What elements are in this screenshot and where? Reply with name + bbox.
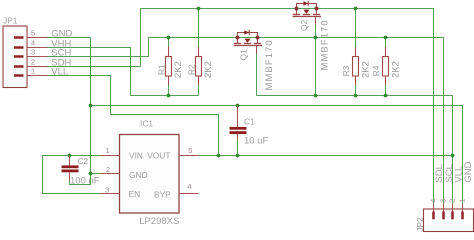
svg-text:4: 4	[31, 39, 35, 48]
svg-text:VIN: VIN	[129, 150, 143, 160]
svg-text:10 uF: 10 uF	[244, 135, 268, 146]
svg-text:GND: GND	[463, 161, 474, 182]
svg-text:IC1: IC1	[140, 119, 153, 129]
wire R2 bottom stub	[198, 85, 200, 96]
svg-text:LP298XS: LP298XS	[139, 216, 179, 227]
wire VLL from JP1 pin1	[48, 76, 219, 156]
svg-text:2: 2	[447, 199, 456, 203]
svg-text:2: 2	[31, 58, 35, 67]
capacitor C1	[230, 106, 269, 147]
svg-text:C1: C1	[244, 116, 255, 126]
svg-text:1: 1	[457, 199, 466, 203]
junction GND rail left	[89, 104, 93, 108]
svg-text:2K2: 2K2	[203, 61, 214, 78]
junction R4 top	[384, 36, 388, 40]
wire VIN-EN loop	[43, 156, 101, 194]
svg-text:3: 3	[31, 48, 35, 57]
svg-text:BYP: BYP	[154, 189, 171, 199]
connector JP2	[415, 209, 474, 232]
IC1 pin 1 VIN	[101, 146, 120, 156]
IC1 pin 4 BYP	[179, 182, 199, 194]
IC1 pin 5 VOUT	[179, 146, 199, 156]
wire VLL low-side rail	[257, 96, 453, 204]
junction GND IC1 pin2	[89, 172, 93, 176]
svg-text:4: 4	[428, 199, 437, 203]
svg-text:4: 4	[187, 182, 191, 191]
JP1 pin 3	[14, 48, 48, 58]
JP2 pin 3	[438, 199, 447, 220]
wire C2 bottom loop	[70, 174, 91, 185]
JP1 pin 2	[14, 58, 48, 68]
resistor R2	[187, 47, 214, 85]
JP1 pin 1	[14, 67, 48, 77]
svg-text:MMBF170: MMBF170	[264, 39, 275, 90]
transistor Q2	[293, 1, 331, 71]
wire SCH from JP1 pin3	[48, 38, 444, 204]
resistor R1	[157, 47, 184, 85]
wire R3 top stub	[355, 9, 357, 49]
resistor R3	[341, 47, 372, 85]
svg-text:2: 2	[106, 165, 110, 174]
wire R1 bottom stub	[168, 85, 170, 96]
JP1 pin 5	[14, 29, 48, 39]
svg-text:JP1: JP1	[3, 15, 18, 25]
svg-text:JP2: JP2	[415, 217, 425, 232]
svg-text:MMBF170: MMBF170	[320, 19, 331, 70]
svg-text:1: 1	[106, 146, 110, 155]
junction R1 bottom	[167, 94, 171, 98]
junction C1 top	[236, 104, 240, 108]
junction C2 top	[68, 154, 72, 158]
JP1 pin 4	[14, 39, 48, 49]
svg-text:1: 1	[31, 67, 35, 76]
wire IC1 pin2 GND stub	[91, 173, 101, 175]
svg-text:3: 3	[438, 199, 447, 203]
junction Q2 gate x SCH	[314, 36, 318, 40]
wire SDH from JP1 pin2	[48, 9, 434, 204]
wire R1 top stub	[168, 38, 170, 49]
svg-text:VOUT: VOUT	[147, 150, 170, 160]
junction C1 bottom	[236, 154, 240, 158]
svg-text:2K2: 2K2	[173, 61, 184, 78]
svg-text:EN: EN	[129, 189, 141, 199]
transistor Q1	[234, 30, 275, 91]
regulator IC1 LP298XS	[120, 119, 180, 228]
JP2 pin 2	[447, 199, 456, 220]
wire R2 top stub	[198, 9, 200, 49]
junction R3 top	[354, 7, 358, 11]
svg-text:Q1: Q1	[239, 49, 249, 61]
wire Q1 gate down	[256, 54, 258, 96]
wire R4 top stub	[385, 38, 387, 49]
wire GND from JP1 pin5	[48, 38, 91, 174]
wire Q2 gate down	[315, 25, 317, 96]
svg-text:2K2: 2K2	[361, 61, 372, 78]
junction R1 top	[167, 36, 171, 40]
svg-text:Q2: Q2	[299, 19, 309, 31]
wire R4 bottom stub	[385, 85, 387, 96]
wire VHH from JP1 pin4	[48, 48, 199, 96]
junction R2 top	[197, 7, 201, 11]
junction VLL loop VOUT	[217, 154, 221, 158]
svg-text:3: 3	[105, 185, 109, 194]
wire R3 bottom stub	[355, 85, 357, 96]
capacitor C2	[62, 156, 100, 187]
JP2 pin 4	[428, 199, 437, 220]
junction R3 bottom	[354, 94, 358, 98]
svg-text:R1: R1	[157, 64, 167, 75]
IC1 pin 2 GND	[101, 165, 120, 174]
connector JP1	[3, 15, 27, 87]
junction VLL JP2	[451, 154, 455, 158]
svg-text:R4: R4	[371, 65, 381, 76]
svg-text:2K2: 2K2	[391, 61, 402, 78]
wire VOUT rail	[199, 155, 453, 157]
IC1 pin 3 EN	[100, 185, 120, 194]
svg-text:5: 5	[188, 146, 192, 155]
wire C1 bottom stub	[237, 140, 239, 156]
junction Q2 gate rail	[314, 94, 318, 98]
svg-text:C2: C2	[78, 156, 89, 166]
svg-text:5: 5	[31, 29, 35, 38]
resistor R4	[371, 47, 402, 85]
svg-text:100 nF: 100 nF	[70, 175, 100, 186]
wire GND rail	[91, 106, 463, 204]
svg-text:R2: R2	[187, 64, 197, 75]
junction R4 bottom	[384, 94, 388, 98]
svg-text:VLL: VLL	[51, 67, 68, 78]
JP2 pin 1	[457, 199, 466, 220]
svg-text:R3: R3	[341, 65, 351, 76]
svg-text:GND: GND	[129, 170, 148, 180]
